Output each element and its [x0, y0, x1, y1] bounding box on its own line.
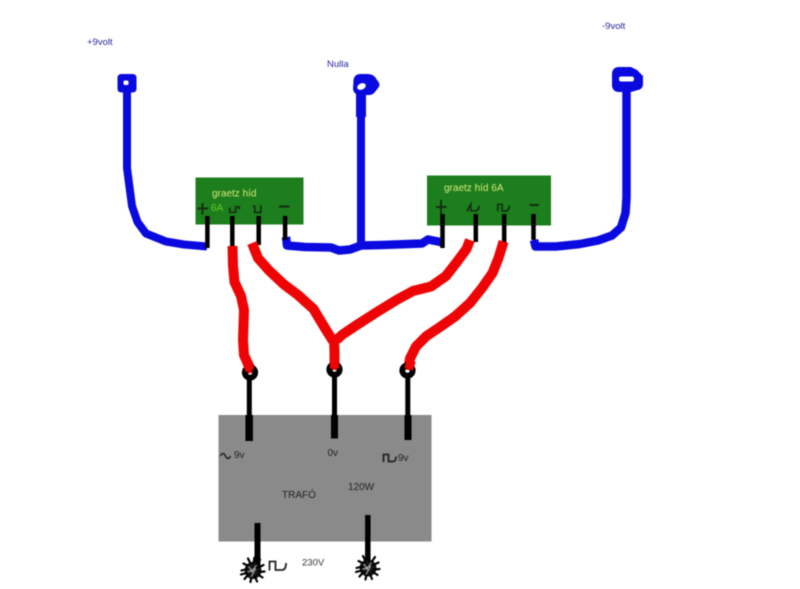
svg-text:230V: 230V [302, 558, 325, 569]
svg-text:6A: 6A [211, 203, 224, 214]
terminal -9volt [612, 67, 643, 92]
svg-text:TRAFÓ: TRAFÓ [282, 488, 316, 501]
svg-text:9v: 9v [398, 453, 409, 464]
svg-text:0v: 0v [328, 448, 339, 459]
wire red U2~ to transformer 9v right [408, 242, 504, 371]
U1 pin2 lead [230, 216, 235, 246]
bridge rectifier U2 (graetz hid 6A) body [427, 176, 551, 226]
wire red end over 0v junction [330, 359, 339, 369]
U2 pin4 - symbol [530, 204, 540, 206]
U1 pin1 + symbol [198, 203, 209, 215]
wire red junction V to transformer 0v [329, 339, 340, 370]
U2 pin3 lead [502, 214, 507, 244]
transformer pin 9v left inside [245, 415, 253, 441]
U1 pin1 lead [205, 216, 210, 248]
svg-text:-9volt: -9volt [602, 21, 626, 32]
svg-text:Nulla: Nulla [327, 59, 349, 70]
U2 pin1 lead [440, 214, 445, 248]
wire Nulla vertical upper stem [356, 93, 366, 117]
wire red U1~ to transformer 9v left [233, 246, 251, 373]
wire center horizontal (bridge1 - to bridge2 +) [286, 237, 443, 251]
svg-text:120W: 120W [348, 482, 375, 493]
mains plug scribble left [241, 558, 265, 583]
wire 9v-right terminal to transformer [405, 376, 410, 416]
wire Nulla vertical [357, 110, 365, 243]
wire 0v terminal to transformer [332, 375, 337, 416]
label square 9v right [384, 455, 397, 463]
junction terminal 9v right [402, 365, 412, 375]
svg-text:9v: 9v [234, 450, 245, 461]
U1 pin4 lead [283, 216, 288, 240]
U1 pin4 - symbol [279, 205, 290, 207]
U1 pin3 ~ symbol [253, 205, 261, 212]
U2 pin2 ~ symbol [467, 204, 479, 211]
U2 pin1 + symbol [436, 200, 447, 214]
svg-text:+9volt: +9volt [87, 37, 113, 48]
U2 pin4 lead [531, 214, 536, 240]
wire 9v-left terminal to transformer [247, 378, 252, 416]
wire red U1~ to junction V [252, 243, 333, 341]
junction terminal 0v [329, 364, 339, 374]
junction terminal 9v left [245, 367, 255, 377]
mains plug scribble right [356, 555, 380, 580]
transformer pin 9v right inside [405, 415, 412, 440]
bridge rectifier U1 (graetz hid 6A) body [196, 178, 304, 225]
U2 pin3 square symbol [498, 204, 509, 211]
wire +9volt to bridge1 + [127, 91, 207, 247]
wire red end over 9v-left junction [247, 362, 251, 371]
wire red end over 9v-right junction [409, 361, 412, 370]
transformer pin 0v inside [331, 415, 338, 439]
U1 pin2 ~ symbol [230, 207, 239, 213]
terminal Nulla [353, 74, 380, 95]
svg-text:graetz híd 6A: graetz híd 6A [444, 183, 504, 194]
label ~ 9v left [221, 454, 231, 459]
wire bridge2 - to -9volt [534, 91, 627, 247]
transformer T1 body (TRAFO 120W) [219, 415, 432, 542]
terminal +9volt [118, 74, 137, 93]
wire mains right [365, 515, 371, 565]
U2 pin2 lead [474, 214, 479, 242]
U1 pin3 lead [256, 216, 261, 245]
svg-text:graetz híd: graetz híd [212, 189, 256, 200]
wire mains left [255, 523, 261, 567]
wire red U2~ to junction V [337, 240, 471, 340]
label 230V square symbol [270, 562, 287, 571]
